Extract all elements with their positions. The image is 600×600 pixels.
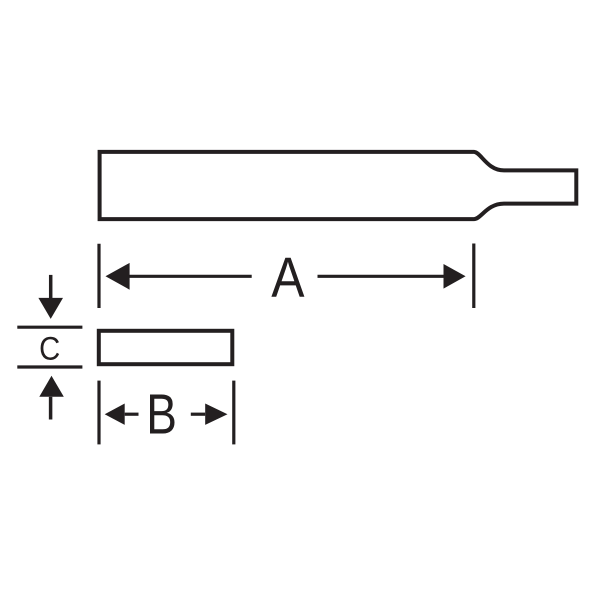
dimension B right tail line — [191, 413, 205, 416]
dimension C top extension line — [17, 326, 82, 329]
label A — [271, 258, 304, 297]
file body outline — [100, 152, 577, 219]
dimension A right arrowhead — [444, 264, 466, 289]
dimension C up arrow line — [49, 397, 53, 420]
dimension C down arrowhead — [38, 298, 63, 319]
dimension B right arrowhead — [205, 404, 227, 425]
label B — [150, 394, 175, 433]
dimension A arrow line right segment — [318, 275, 446, 278]
dimension C up arrowhead — [39, 376, 64, 397]
dimension B left extension line — [97, 381, 100, 445]
dimension B left arrowhead — [105, 404, 125, 425]
dimension A right extension line — [472, 244, 475, 309]
dimension A left arrowhead — [106, 263, 130, 290]
cross-section rectangle — [99, 331, 233, 364]
dimension C bottom extension line — [17, 365, 82, 368]
dimension C down arrow line — [49, 275, 53, 299]
dimension B right extension line — [232, 381, 235, 445]
dimension B left tail line — [125, 413, 139, 416]
dimension A arrow line left segment — [127, 275, 252, 278]
dimension A left extension line — [97, 244, 100, 308]
label C — [41, 337, 59, 360]
